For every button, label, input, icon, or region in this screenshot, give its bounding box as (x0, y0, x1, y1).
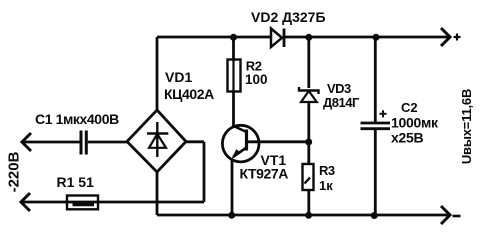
resistor R2 (228, 60, 241, 92)
wire C1 left (24, 141, 80, 144)
svg-text:С1 1мкх400В: С1 1мкх400В (35, 111, 119, 127)
capacitor C2 plates (361, 123, 391, 129)
resistor R3 (303, 164, 314, 190)
junction dot base node (305, 139, 312, 146)
svg-text:КТ927А: КТ927А (240, 166, 289, 182)
junction dot top C2 (373, 34, 380, 41)
wire VT1 base lead (247, 140, 309, 143)
svg-text:VD3: VD3 (327, 81, 351, 96)
wire R1 row (22, 201, 204, 204)
C2 plus sign (380, 110, 387, 117)
svg-text:Uвых=11,6В: Uвых=11,6В (459, 89, 474, 164)
wire R2 collector lead (232, 92, 235, 126)
wire bottom rail (157, 214, 449, 217)
junction dot bottom C2 (371, 212, 378, 219)
junction dot top VD3 (305, 34, 312, 41)
svg-text:Д814Г: Д814Г (323, 95, 360, 110)
svg-text:100: 100 (245, 72, 268, 87)
svg-text:C2: C2 (401, 100, 418, 115)
label plus terminal (454, 34, 461, 41)
bridge rectifier VD1 diamond (127, 110, 186, 172)
svg-text:-220В: -220В (6, 151, 23, 192)
wire bridge bottom lead (156, 172, 159, 215)
junction dot bottom R3 (305, 212, 312, 219)
transistor VT1 (222, 125, 259, 162)
svg-text:КЦ402А: КЦ402А (164, 86, 214, 102)
wire VD3 top lead (307, 37, 310, 88)
wire R3 bottom lead (307, 190, 310, 215)
junction dot top R2 (230, 34, 237, 41)
svg-text:R3: R3 (319, 163, 335, 178)
svg-text:х25В: х25В (391, 130, 423, 146)
VT1 emitter arrowhead (231, 149, 241, 159)
capacitor C1 plates (81, 131, 86, 155)
wire top rail right (284, 36, 449, 39)
wire right vertex to corner (187, 140, 205, 143)
wire VD3 to R3 (307, 102, 310, 164)
svg-text:VD2 Д327Б: VD2 Д327Б (251, 9, 326, 25)
wire top rail left (157, 36, 270, 39)
wire R2 inner lead (232, 61, 234, 92)
wire bridge top lead (156, 37, 159, 110)
resistor R1 (67, 196, 98, 210)
junction dot bottom emitter (228, 212, 235, 219)
wire C2 top lead (374, 37, 377, 122)
wire corner vertical x204 (203, 142, 206, 202)
bridge VD1 inner diode (147, 122, 168, 157)
arrow input C1 (22, 133, 31, 151)
wire C1 right (88, 141, 127, 144)
diode VD2 (271, 29, 284, 48)
arrow output minus (441, 206, 450, 224)
resistor R1 inner smudge (73, 202, 95, 207)
svg-text:1000мк: 1000мк (391, 115, 439, 131)
svg-text:1к: 1к (319, 178, 333, 193)
wire R2 top lead (232, 37, 235, 61)
wire C2 bottom lead (374, 130, 377, 215)
label minus terminal (453, 215, 461, 218)
zener diode VD3 (299, 87, 319, 102)
svg-text:R1 51: R1 51 (57, 174, 95, 190)
wire VT1 emitter lead (231, 159, 234, 215)
arrow output plus (441, 28, 450, 46)
resistor R3 inner mark (305, 178, 311, 184)
svg-text:VD1: VD1 (165, 69, 192, 85)
arrow input R1 (21, 193, 30, 211)
